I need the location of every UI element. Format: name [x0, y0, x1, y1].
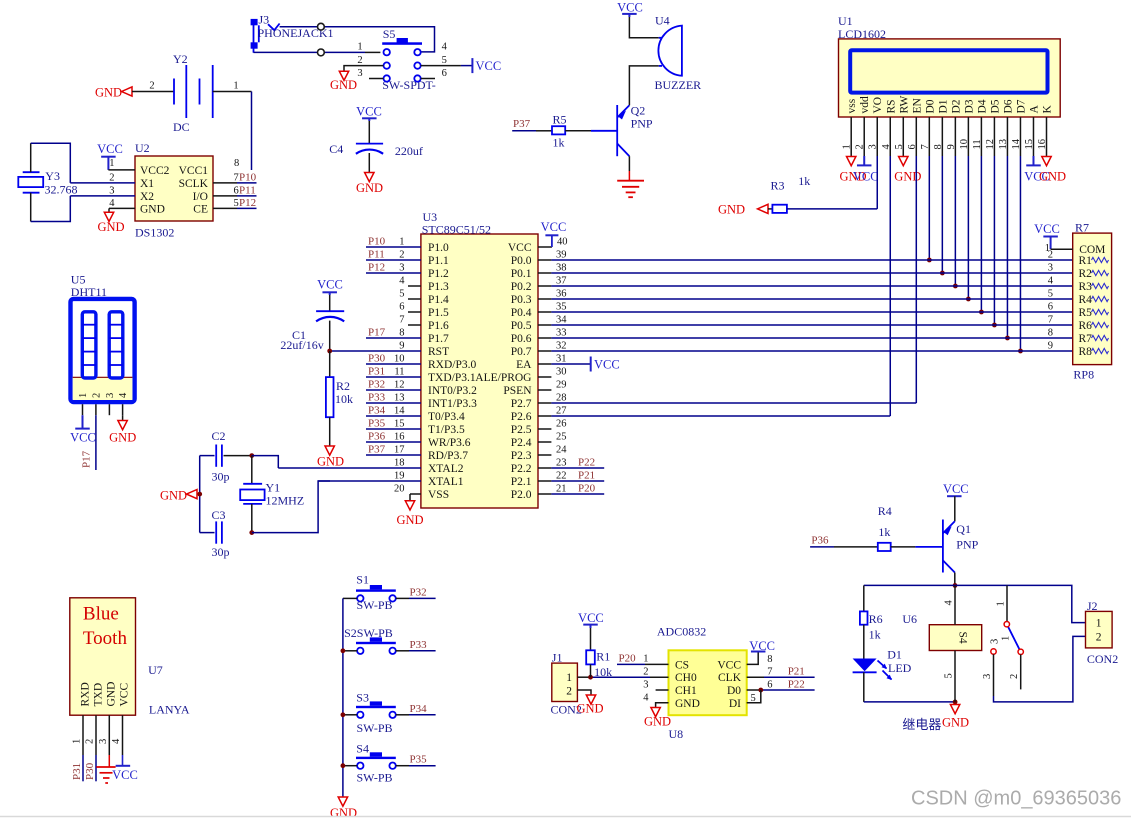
- label S3: [356, 691, 369, 705]
- label S4: [356, 742, 369, 756]
- label 1k (R5): [553, 136, 565, 150]
- svg-text:P34: P34: [368, 405, 386, 417]
- IC U2 DS1302 body: [135, 156, 213, 221]
- svg-text:LCD1602: LCD1602: [838, 27, 886, 41]
- svg-text:GND: GND: [644, 715, 671, 729]
- diode D1 LED: [853, 659, 892, 681]
- svg-text:20: 20: [394, 484, 405, 495]
- svg-text:GND: GND: [718, 203, 745, 217]
- svg-text:1: 1: [1001, 636, 1012, 641]
- wire VCC to C1: [329, 295, 331, 311]
- svg-text:5: 5: [751, 693, 756, 704]
- wire XTAL2 node to U3 XTAL2: [252, 456, 278, 468]
- svg-text:P20: P20: [619, 653, 637, 665]
- wire S4 to net P35: [396, 754, 436, 766]
- wire XTAL2 node to Y1: [251, 456, 253, 484]
- svg-text:P1.0: P1.0: [428, 242, 449, 254]
- wire relay coil pin 5: [944, 651, 956, 702]
- svg-text:9: 9: [1048, 341, 1053, 352]
- wire VCC to buzzer: [629, 17, 658, 38]
- wire DHT11 pin4 to GND: [122, 415, 124, 420]
- label U3: [423, 210, 438, 224]
- svg-text:D4: D4: [976, 99, 988, 113]
- svg-text:1: 1: [72, 739, 83, 744]
- svg-text:21: 21: [556, 484, 567, 495]
- svg-text:P33: P33: [410, 639, 428, 651]
- svg-text:36: 36: [556, 289, 567, 300]
- svg-text:10: 10: [394, 354, 405, 365]
- switch S5 body: [382, 38, 422, 45]
- svg-text:1: 1: [233, 81, 238, 92]
- svg-text:XTAL1: XTAL1: [428, 476, 464, 488]
- svg-text:220uf: 220uf: [395, 144, 423, 158]
- svg-text:S2SW-PB: S2SW-PB: [344, 626, 393, 640]
- junction dot J1/R1/CH0: [588, 675, 593, 680]
- label 1k (R4): [878, 525, 890, 539]
- svg-text:7: 7: [767, 667, 772, 678]
- svg-text:D1: D1: [937, 99, 949, 113]
- label 22uf/16v: [280, 338, 323, 352]
- svg-text:3: 3: [109, 186, 114, 197]
- svg-text:D0: D0: [727, 685, 741, 697]
- power symbol GND (buttons): [330, 797, 357, 819]
- label D1: [887, 648, 902, 662]
- wire top rail to J2 pin1: [955, 585, 1086, 622]
- label Q2: [631, 104, 646, 118]
- U8 pin 8 (VCC) wire: [747, 652, 773, 666]
- svg-text:P33: P33: [368, 392, 386, 404]
- svg-text:VCC: VCC: [617, 1, 643, 15]
- svg-text:6: 6: [1048, 302, 1053, 313]
- wire relay top rail: [864, 584, 955, 586]
- U3 pin 31 (EA) wire to VCC: [516, 354, 591, 372]
- svg-text:1: 1: [399, 237, 404, 248]
- relay contact circle 3: [990, 639, 1001, 654]
- resistor R1 10k: [586, 650, 595, 664]
- wire S5 pin2 to GND: [344, 66, 384, 72]
- label J1: [552, 651, 563, 665]
- svg-text:4: 4: [944, 600, 955, 606]
- svg-text:VCC: VCC: [578, 611, 604, 625]
- svg-text:37: 37: [556, 276, 567, 287]
- svg-text:VCC: VCC: [853, 170, 879, 184]
- label 10k (R2): [335, 392, 353, 406]
- svg-text:VCC: VCC: [317, 277, 343, 291]
- wire buzzer to Q2 collector: [629, 66, 658, 105]
- svg-text:P2.0: P2.0: [511, 489, 532, 501]
- U7 pin names: [80, 682, 131, 707]
- svg-text:P0.3: P0.3: [511, 294, 532, 306]
- svg-text:14: 14: [394, 406, 405, 417]
- svg-text:A: A: [1028, 105, 1040, 114]
- U8 pin 6 (D0) wire net P22: [747, 679, 815, 691]
- svg-text:39: 39: [556, 250, 567, 261]
- svg-text:4: 4: [442, 42, 448, 53]
- svg-text:S5: S5: [383, 27, 396, 41]
- svg-text:D5: D5: [989, 99, 1001, 113]
- capacitor C4 220uf: [356, 144, 383, 154]
- RP8 pin 2 (R1): [1048, 250, 1109, 268]
- svg-text:SW-PB: SW-PB: [357, 598, 393, 612]
- svg-text:P36: P36: [811, 535, 829, 547]
- svg-text:Y1: Y1: [266, 481, 281, 495]
- svg-text:VSS: VSS: [428, 489, 449, 501]
- svg-text:22: 22: [556, 471, 567, 482]
- svg-text:CSDN @m0_69365036: CSDN @m0_69365036: [911, 787, 1121, 809]
- svg-text:GND: GND: [97, 220, 124, 234]
- label R2: [336, 379, 350, 393]
- svg-text:VCC: VCC: [70, 431, 96, 445]
- crystal Y3 32.768: [18, 172, 43, 193]
- U3 pin 20 (VSS) wire to GND: [394, 484, 449, 502]
- U3 pin 40 (VCC) wire to VCC: [508, 237, 568, 255]
- junction circle J3 tip: [318, 23, 325, 30]
- label DS1302: [135, 226, 174, 240]
- switch S3 SW-PB: [356, 701, 396, 718]
- svg-text:VCC: VCC: [118, 683, 130, 707]
- wire R2 to GND: [329, 417, 331, 446]
- svg-text:P0.5: P0.5: [511, 320, 532, 332]
- svg-text:P10: P10: [239, 172, 257, 184]
- svg-text:6: 6: [442, 68, 447, 79]
- power symbol GND (relay): [942, 705, 969, 730]
- label 1k (R3): [798, 174, 810, 188]
- svg-text:SW-PB: SW-PB: [357, 771, 393, 785]
- junction circle J3 sleeve: [318, 49, 325, 56]
- svg-text:1k: 1k: [878, 525, 890, 539]
- label STC89C51/52: [422, 222, 491, 236]
- earth ground symbol (Q2): [617, 171, 644, 197]
- wire Y3 top loop to U2 X1: [31, 143, 71, 183]
- label relay chinese: [902, 717, 941, 732]
- svg-text:26: 26: [556, 419, 567, 430]
- svg-text:P1.1: P1.1: [428, 255, 449, 267]
- svg-text:WR/P3.6: WR/P3.6: [428, 437, 471, 449]
- U3 pin 11 (TXD/P3.1) wire, net P31: [366, 366, 476, 385]
- svg-text:VCC: VCC: [594, 358, 620, 372]
- svg-text:Blue: Blue: [83, 604, 119, 625]
- svg-text:P22: P22: [578, 457, 595, 469]
- LCD pin numbers 1-16: [842, 138, 1048, 149]
- svg-text:P17: P17: [368, 327, 386, 339]
- relay lever: [1001, 624, 1021, 652]
- U8 pin 4 (GND) wire: [643, 693, 668, 708]
- U3 pin 39 (P0.0) bus wire to RP8: [511, 250, 1073, 268]
- U3 pin 15 (T1/P3.5) wire, net P35: [366, 418, 465, 437]
- svg-text:VCC1: VCC1: [179, 165, 209, 177]
- svg-text:2: 2: [109, 173, 114, 184]
- svg-text:2: 2: [357, 55, 362, 66]
- svg-text:GND: GND: [356, 181, 383, 195]
- power symbol VCC (R1): [578, 611, 604, 628]
- svg-text:3: 3: [357, 68, 362, 79]
- label PNP (Q1): [956, 538, 978, 552]
- U3 pin 35 (P0.4) bus wire to RP8: [511, 302, 1073, 320]
- U3 pin 37 (P0.2) bus wire to RP8: [511, 276, 1073, 294]
- svg-text:RD/P3.7: RD/P3.7: [428, 450, 468, 462]
- label S5: [383, 27, 396, 41]
- power symbol VCC (RP8 COM): [1034, 222, 1060, 249]
- svg-text:R7: R7: [1079, 333, 1093, 345]
- label PHONEJACK1: [258, 26, 334, 40]
- label LCD1602: [838, 27, 886, 41]
- svg-text:P2.4: P2.4: [511, 437, 532, 449]
- U2 pin names: [140, 165, 209, 216]
- label J2: [1087, 599, 1098, 613]
- svg-text:2: 2: [566, 686, 572, 698]
- svg-text:VCC: VCC: [541, 220, 567, 234]
- wire Q1 collector to node: [954, 573, 956, 586]
- net label P37: [512, 118, 536, 131]
- svg-text:D3: D3: [963, 99, 975, 113]
- RP8 pin 3 (R2): [1048, 263, 1109, 281]
- wire rail to S1: [343, 597, 357, 599]
- watermark text: [911, 787, 1121, 809]
- svg-text:1k: 1k: [553, 136, 565, 150]
- capacitor C2 30p: [216, 445, 222, 467]
- svg-text:2: 2: [91, 393, 102, 398]
- U3 pin 5 (P1.4) stub: [399, 289, 449, 307]
- label SW-SPDT-: [382, 78, 436, 92]
- junction dot S3 rail: [341, 712, 346, 717]
- wire S2 to net P33: [396, 639, 436, 651]
- svg-text:Q1: Q1: [956, 522, 971, 536]
- svg-text:VCC: VCC: [476, 59, 502, 73]
- U3 pin 17 (RD/P3.7) wire, net P37: [366, 444, 468, 463]
- U2 pin 2 wire: [70, 173, 135, 184]
- earth ground symbol (U7 pin3): [96, 755, 115, 783]
- wire C4 to GND: [368, 153, 370, 173]
- wire battery-1 to U2 VCC1: [213, 92, 252, 171]
- relay contact 2 wire (open): [1009, 655, 1021, 690]
- label Y2: [173, 52, 188, 66]
- svg-text:5: 5: [944, 673, 955, 678]
- RP8 pin 8 (R7): [1048, 328, 1109, 346]
- svg-text:D2: D2: [950, 99, 962, 113]
- S5 pin circles: [384, 49, 421, 82]
- U3 pin 30 (ALE/PROG) stub: [475, 367, 566, 385]
- svg-text:33: 33: [556, 328, 567, 339]
- svg-text:D7: D7: [1015, 99, 1027, 113]
- svg-text:R8: R8: [1079, 346, 1093, 358]
- svg-text:10k: 10k: [594, 665, 612, 679]
- svg-text:1: 1: [109, 158, 114, 169]
- svg-text:P12: P12: [239, 197, 256, 209]
- resistor R5 1k: [552, 126, 565, 134]
- label ADC0832: [657, 625, 706, 639]
- svg-text:8: 8: [399, 328, 404, 339]
- svg-text:XTAL2: XTAL2: [428, 463, 464, 475]
- junction dot Q1 collector node: [953, 583, 958, 588]
- wire DHT11 pin2 net P17: [81, 415, 96, 470]
- svg-text:U6: U6: [902, 612, 917, 626]
- svg-text:VCC: VCC: [356, 104, 382, 118]
- label CON2 (J1): [551, 703, 582, 717]
- svg-text:1: 1: [566, 672, 572, 684]
- U3 pin 12 (INT0/P3.2) wire, net P32: [366, 379, 477, 398]
- svg-text:INT0/P3.2: INT0/P3.2: [428, 385, 477, 397]
- wire S3 to net P34: [396, 703, 436, 715]
- svg-text:1: 1: [357, 42, 362, 53]
- svg-text:vss: vss: [846, 98, 858, 113]
- svg-text:P1.5: P1.5: [428, 307, 449, 319]
- label J3: [259, 13, 270, 27]
- svg-text:DC: DC: [173, 120, 190, 134]
- svg-text:C4: C4: [329, 142, 343, 156]
- svg-text:1: 1: [1096, 618, 1102, 630]
- U3 pin 29 (PSEN) stub: [503, 380, 566, 398]
- label SW-PB (S4): [357, 771, 393, 785]
- svg-text:5: 5: [234, 198, 239, 209]
- DHT11 grille left: [82, 312, 96, 378]
- label SW-PB (S1): [357, 598, 393, 612]
- label 30p (C3): [212, 545, 230, 559]
- U3 pin 19 (XTAL1) wire: [318, 471, 464, 489]
- svg-text:P0.7: P0.7: [511, 346, 532, 358]
- svg-text:GND: GND: [894, 170, 921, 184]
- svg-text:RW: RW: [898, 95, 910, 113]
- svg-text:vdd: vdd: [859, 96, 871, 114]
- switch S2 SW-PB: [356, 637, 396, 654]
- LCD pin names: [846, 95, 1053, 113]
- svg-text:P11: P11: [368, 249, 385, 261]
- power symbol GND (LCD pin5 RW): [894, 157, 921, 184]
- svg-text:T1/P3.5: T1/P3.5: [428, 424, 465, 436]
- S5 pin6 stub: [421, 78, 435, 80]
- power symbol GND (R3): [718, 203, 768, 217]
- svg-text:2: 2: [85, 739, 96, 744]
- svg-text:GND: GND: [140, 204, 165, 216]
- svg-text:P37: P37: [513, 118, 531, 130]
- svg-text:R2: R2: [1079, 268, 1093, 280]
- U8 pin 1 (CS) wire net P20: [617, 653, 669, 665]
- wire D1 to bottom rail: [863, 672, 865, 702]
- svg-text:VCC: VCC: [508, 242, 532, 254]
- power symbol GND (LCD pin1 vss): [840, 157, 867, 184]
- junction dot S4 rail: [341, 763, 346, 768]
- svg-text:4: 4: [399, 276, 405, 287]
- U3 pin 32 (P0.7) bus wire to RP8: [511, 341, 1073, 359]
- svg-text:R4: R4: [1079, 294, 1093, 306]
- svg-text:P0.4: P0.4: [511, 307, 532, 319]
- svg-text:P35: P35: [368, 418, 386, 430]
- svg-text:6: 6: [767, 680, 772, 691]
- buzzer U4: [658, 26, 682, 76]
- svg-text:17: 17: [394, 445, 405, 456]
- resistor pack R7/RP8 body: [1073, 233, 1112, 365]
- svg-text:VCC: VCC: [97, 142, 123, 156]
- svg-text:6: 6: [234, 186, 239, 197]
- wire S5 pin5 to VCC: [421, 65, 472, 67]
- U3 pin 6 (P1.5) stub: [399, 302, 449, 320]
- RP8 pin 6 (R5): [1048, 302, 1109, 320]
- wire relay bottom rail to GND node: [864, 701, 955, 703]
- svg-text:C3: C3: [212, 508, 226, 522]
- label U4: [655, 13, 670, 27]
- svg-text:PSEN: PSEN: [503, 385, 532, 397]
- transistor Q1 PNP: [943, 520, 955, 573]
- label battery pin 2: [149, 81, 154, 92]
- svg-text:P0.2: P0.2: [511, 281, 532, 293]
- svg-text:P2.5: P2.5: [511, 424, 532, 436]
- junction dot relay GND node: [953, 700, 958, 705]
- svg-text:Y3: Y3: [45, 169, 60, 183]
- label C1: [292, 328, 306, 342]
- svg-text:3: 3: [1048, 263, 1053, 274]
- svg-text:DS1302: DS1302: [135, 226, 174, 240]
- svg-text:2: 2: [643, 667, 648, 678]
- svg-text:4: 4: [109, 198, 115, 209]
- wire R6 to D1: [863, 625, 865, 659]
- label R1: [596, 650, 610, 664]
- svg-text:ALE/PROG: ALE/PROG: [475, 372, 531, 384]
- svg-text:EA: EA: [516, 359, 532, 371]
- wire Y3 bottom loop to U2 X2: [31, 193, 71, 222]
- svg-text:P32: P32: [368, 379, 385, 391]
- svg-text:P0.1: P0.1: [511, 268, 532, 280]
- svg-text:GND: GND: [317, 455, 344, 469]
- svg-text:8: 8: [234, 158, 239, 169]
- svg-text:X1: X1: [140, 178, 154, 190]
- svg-text:P20: P20: [578, 483, 596, 495]
- svg-text:GND: GND: [942, 716, 969, 730]
- LCD screen rectangle: [850, 50, 1047, 92]
- label DHT11: [71, 285, 107, 299]
- label LANYA: [149, 703, 190, 717]
- svg-text:VCC: VCC: [717, 659, 741, 671]
- S5 pin labels 1-6: [357, 42, 447, 79]
- wire rail to S3: [343, 714, 357, 716]
- U3 pin 34 (P0.5) bus wire to RP8: [511, 315, 1073, 333]
- svg-text:S4: S4: [957, 632, 969, 644]
- svg-text:3: 3: [982, 674, 993, 679]
- svg-text:GND: GND: [105, 682, 117, 707]
- svg-text:P10: P10: [368, 236, 386, 248]
- resistor R2 10k: [326, 377, 334, 417]
- wire GND to R3: [768, 208, 772, 210]
- svg-text:32.768: 32.768: [45, 183, 78, 197]
- label C3: [212, 508, 226, 522]
- power symbol VCC (DHT11 pin1): [70, 415, 96, 444]
- label DC: [173, 120, 190, 134]
- U3 pin 18 (XTAL2) wire: [278, 458, 463, 476]
- net label P36: [810, 535, 834, 547]
- svg-text:29: 29: [556, 380, 567, 391]
- U3 pin 10 (RXD/P3.0) wire, net P30: [366, 353, 476, 372]
- svg-text:R5: R5: [553, 112, 567, 126]
- svg-text:GND: GND: [1039, 170, 1066, 184]
- svg-text:RP8: RP8: [1073, 368, 1094, 382]
- svg-text:3: 3: [399, 263, 404, 274]
- label U5: [71, 273, 86, 287]
- U8 pin 5 (DI) wire: [747, 690, 761, 704]
- svg-text:SCLK: SCLK: [179, 178, 209, 190]
- RP8 pin 5 (R4): [1048, 289, 1109, 307]
- svg-text:8: 8: [767, 654, 772, 665]
- svg-text:R7: R7: [1075, 221, 1089, 235]
- U3 pin 25 (P2.4) stub: [511, 432, 567, 450]
- J1 pin 2 wire to GND: [577, 690, 591, 695]
- RP8 pin 7 (R6): [1048, 315, 1109, 333]
- U2 pin 4 wire to GND: [109, 198, 135, 212]
- svg-text:30p: 30p: [212, 470, 230, 484]
- svg-text:P17: P17: [81, 450, 93, 468]
- label battery pin 1: [233, 81, 238, 92]
- svg-text:7: 7: [234, 173, 239, 184]
- svg-text:P30: P30: [84, 762, 96, 780]
- RP8 pin 9 (R8): [1048, 341, 1109, 359]
- label R7: [1075, 221, 1089, 235]
